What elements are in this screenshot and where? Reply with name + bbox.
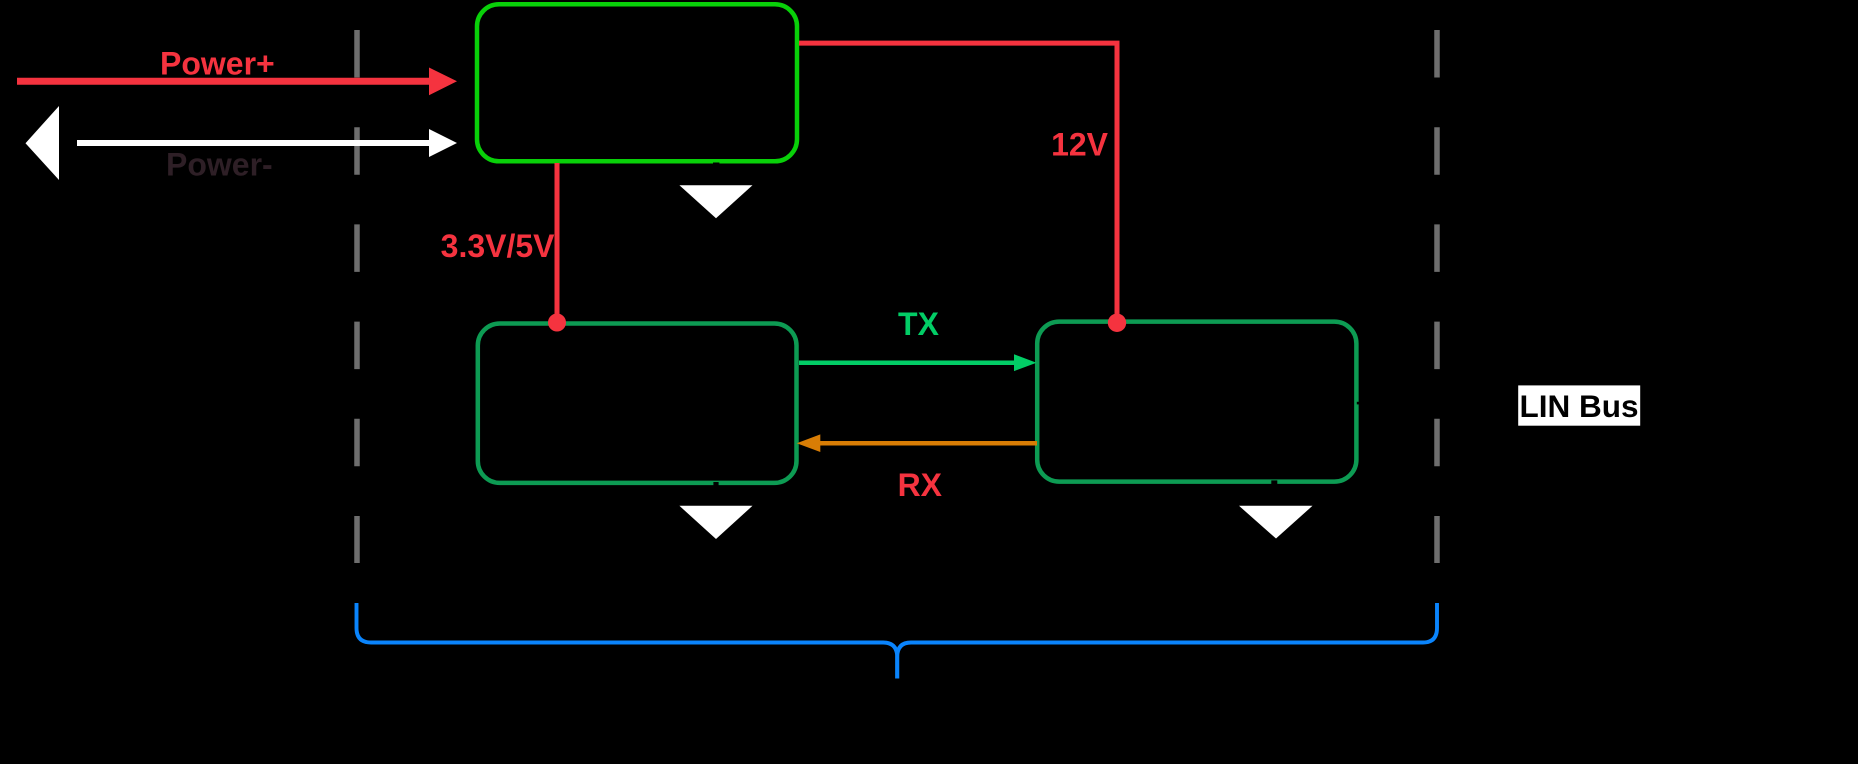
svg-text:Power-: Power- <box>166 147 273 183</box>
svg-text:LIN Bus: LIN Bus <box>1520 388 1639 424</box>
ground symbol under top box <box>679 185 752 218</box>
right dashed boundary line <box>1434 30 1440 563</box>
wire TX arrow <box>799 354 1037 371</box>
wire 12V from top box to transceiver <box>799 43 1117 322</box>
wire RX arrow <box>797 434 1037 452</box>
brace (blue curly bracket) left half <box>357 603 898 679</box>
ground symbol under MCU box <box>679 506 752 539</box>
hidden LIN wire notch on transceiver right border <box>1357 402 1359 405</box>
svg-text:Power+: Power+ <box>160 46 275 82</box>
block MCU (middle-left box) <box>478 324 797 483</box>
brace right half <box>897 603 1437 679</box>
ground stem notch on top box border <box>713 163 719 166</box>
ground symbol under transceiver box <box>1239 506 1313 539</box>
ground stem notch on transceiver border <box>1271 480 1277 484</box>
svg-text:12V: 12V <box>1051 127 1109 163</box>
node 3.3V/5V junction dot <box>548 314 566 332</box>
svg-text:3.3V/5V: 3.3V/5V <box>441 228 556 264</box>
wire Power+ red arrow <box>17 68 457 96</box>
label LIN Bus <box>1518 385 1640 425</box>
block LIN transceiver (middle-right box) <box>1037 322 1356 482</box>
svg-text:RX: RX <box>898 467 943 503</box>
wire 3.3V/5V from top box to MCU <box>555 163 560 322</box>
ground stem notch on MCU border <box>713 482 718 486</box>
wire Power- white arrow <box>26 106 458 180</box>
node 12V junction dot <box>1108 314 1126 332</box>
left dashed boundary line <box>354 30 360 563</box>
block Power Supply (top box) <box>477 4 797 161</box>
svg-text:TX: TX <box>898 306 940 342</box>
